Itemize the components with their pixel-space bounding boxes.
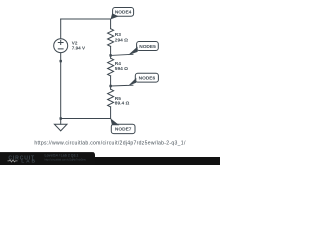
resistor R3 [108, 29, 114, 47]
wire bottom horizontal [61, 118, 111, 120]
svg-text:NODE7: NODE7 [115, 127, 132, 133]
junction dot node5 [109, 54, 111, 56]
ground [54, 124, 67, 131]
footer strip [0, 157, 220, 165]
wire R5 to bottom [110, 107, 112, 119]
svg-text:R3: R3 [115, 32, 121, 38]
wire R4 to node6 [110, 76, 112, 89]
svg-text:294 Ω: 294 Ω [115, 38, 128, 44]
wire below source [60, 53, 62, 119]
flag NODE5 [137, 42, 159, 51]
svg-text:NODE6: NODE6 [139, 76, 156, 82]
logo zigzag [8, 160, 18, 162]
flag NODE4 [113, 8, 134, 17]
junction dot ground node [60, 117, 62, 119]
pointer line NODE5 [111, 54, 133, 55]
junction dot node6 [109, 85, 111, 87]
wire R3 to node5 [110, 46, 112, 58]
voltage source V2 [54, 39, 68, 53]
svg-text:https://www.circuitlab.com/cir: https://www.circuitlab.com/circuit/2dj4p… [34, 141, 186, 147]
pointer wedge NODE4 [111, 13, 119, 19]
wire left vertical to source [60, 19, 62, 39]
junction dot below source [60, 60, 62, 62]
flag NODE6 [135, 73, 158, 82]
pointer wedge NODE5 [128, 47, 138, 56]
wire top horizontal [61, 18, 111, 20]
resistor R5 [108, 89, 114, 107]
flag NODE7 [111, 124, 135, 133]
pointer wedge NODE7 [110, 118, 119, 125]
pointer line NODE6 [111, 84, 133, 87]
svg-text:594 Ω: 594 Ω [115, 66, 128, 72]
svg-text:LAB: LAB [21, 159, 37, 165]
svg-text:http://circuitlab.com/c/2dj4p7: http://circuitlab.com/c/2dj4p7rdz5ew [45, 157, 86, 161]
svg-text:89.4 Ω: 89.4 Ω [115, 101, 130, 107]
svg-text:NODE5: NODE5 [139, 44, 156, 50]
ground stub [60, 119, 62, 125]
wire right column lead R3 [110, 19, 112, 29]
footer plate [0, 152, 95, 165]
svg-text:NODE4: NODE4 [115, 10, 132, 16]
svg-text:7.94 V: 7.94 V [72, 45, 86, 50]
svg-text:R4: R4 [115, 61, 121, 67]
svg-text:Lovet14 / Lab 2 Q3.1: Lovet14 / Lab 2 Q3.1 [45, 154, 79, 158]
resistor R4 [108, 58, 114, 76]
pointer wedge NODE6 [128, 78, 136, 86]
